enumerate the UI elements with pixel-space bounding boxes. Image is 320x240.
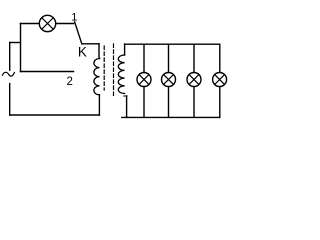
wire source lower vertical [9,84,11,115]
wire left vertical [20,24,22,72]
lamp L2 [137,73,151,87]
wire lamp branch 2 [168,44,170,117]
transformer secondary coil [118,55,124,94]
AC source ~ [2,72,14,76]
wire source upper vertical [9,43,11,71]
transformer primary coil [94,58,100,94]
wire primary bottom stub [98,95,100,115]
lamp L5 [213,73,227,87]
wire lamp branch 1 [143,44,145,117]
transformer core left dashed line [103,46,105,90]
svg-text:K: K [78,45,87,60]
transformer core right dashed line [113,44,115,97]
wire right-loop right edge [219,44,221,117]
wire source top link [10,42,21,44]
lamp L1 [39,15,55,31]
wire lamp branch 3 [193,44,195,117]
lamp L4 [187,73,201,87]
wire switch pivot horizontal [82,43,99,45]
svg-text:2: 2 [67,76,73,88]
lamp L3 [162,73,176,87]
wire bottom-left horizontal [10,114,100,116]
switch K blade [75,22,82,44]
wire top-left horizontal [21,23,74,25]
wire primary top stub [98,44,101,59]
wire secondary bottom stub [126,96,128,117]
wire right-loop bottom horizontal [122,116,220,118]
wire secondary coil foot tick [124,95,127,97]
wire right-loop top horizontal [125,43,220,45]
wire middle (contact 2 arm) [21,71,74,73]
wire secondary top stub [124,44,126,55]
